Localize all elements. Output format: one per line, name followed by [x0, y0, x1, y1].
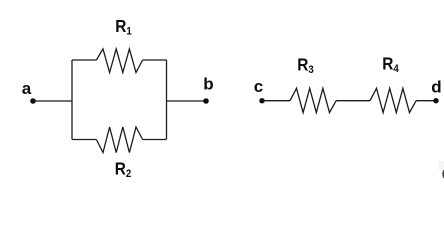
wire: [262, 100, 290, 102]
resistor R2: [96, 127, 142, 153]
wire: [33, 100, 72, 102]
node d: [431, 78, 441, 104]
node a: [22, 79, 36, 104]
svg-text:a: a: [22, 79, 32, 98]
svg-text:R1: R1: [115, 17, 132, 38]
node b: [203, 75, 213, 104]
resistor R1: [96, 49, 142, 73]
wire: [72, 139, 96, 141]
wire: [72, 59, 96, 61]
wire: [167, 100, 207, 102]
svg-text:c: c: [254, 77, 263, 96]
svg-text:b: b: [203, 75, 213, 94]
wire: [166, 60, 168, 140]
resistor R4: [370, 88, 416, 112]
wire: [143, 139, 167, 141]
svg-text:R3: R3: [297, 56, 314, 77]
resistor R3: [290, 88, 336, 112]
svg-text:d: d: [431, 78, 441, 97]
wire: [71, 60, 73, 140]
wire: [336, 100, 370, 102]
svg-text:R4: R4: [382, 55, 399, 76]
node c: [254, 77, 265, 103]
svg-text:R2: R2: [115, 160, 132, 181]
wire: [416, 100, 436, 102]
wire: [143, 59, 167, 61]
